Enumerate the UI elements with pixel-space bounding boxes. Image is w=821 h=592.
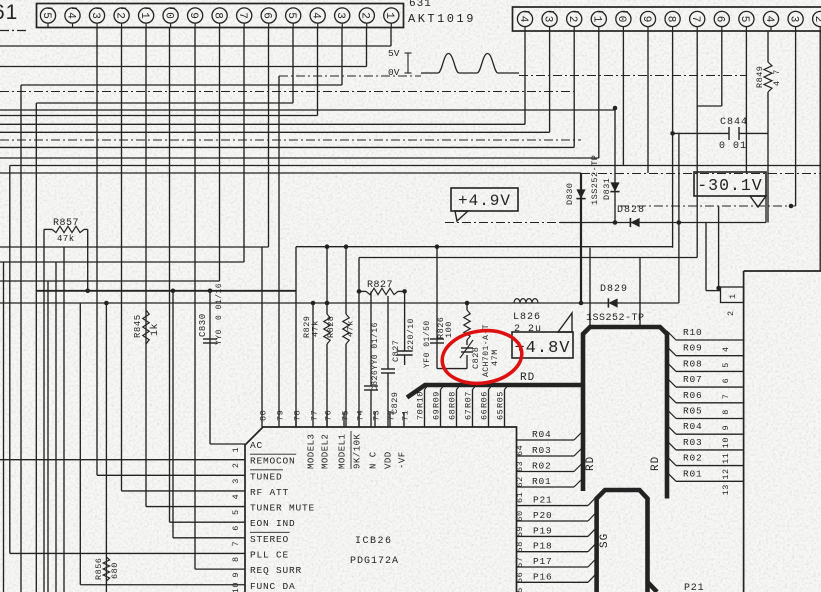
- svg-text:N C: N C: [369, 451, 379, 469]
- svg-text:74: 74: [356, 410, 366, 421]
- svg-text:2 2u: 2 2u: [514, 324, 542, 335]
- svg-text:1: 1: [728, 293, 738, 299]
- svg-text:4: 4: [64, 12, 76, 19]
- svg-text:0: 0: [162, 12, 174, 19]
- svg-text:R01: R01: [683, 468, 703, 479]
- svg-text:5: 5: [40, 12, 52, 19]
- svg-text:8: 8: [231, 556, 241, 562]
- svg-text:220/10: 220/10: [407, 318, 416, 350]
- svg-text:2: 2: [359, 12, 371, 19]
- svg-text:64: 64: [515, 445, 525, 456]
- svg-text:R02: R02: [683, 453, 703, 464]
- svg-text:R08: R08: [448, 391, 458, 408]
- svg-text:1: 1: [231, 447, 241, 453]
- svg-text:2: 2: [231, 463, 241, 469]
- svg-text:5: 5: [738, 16, 750, 23]
- svg-text:VDD: VDD: [384, 451, 394, 469]
- svg-text:77: 77: [310, 410, 320, 421]
- svg-text:0: 0: [615, 16, 627, 23]
- svg-text:AKT1019: AKT1019: [408, 12, 476, 26]
- svg-text:10: 10: [231, 582, 241, 592]
- svg-text:R04: R04: [683, 421, 703, 432]
- svg-text:REQ SURR: REQ SURR: [250, 565, 302, 576]
- svg-text:R07: R07: [683, 374, 703, 385]
- svg-text:5: 5: [285, 12, 297, 19]
- svg-text:RD: RD: [585, 456, 597, 471]
- svg-text:76: 76: [324, 410, 334, 421]
- svg-text:R01: R01: [532, 476, 552, 487]
- svg-text:R857: R857: [53, 218, 79, 229]
- svg-text:9: 9: [231, 572, 241, 578]
- svg-text:6: 6: [714, 16, 726, 23]
- svg-text:R09: R09: [432, 391, 442, 408]
- svg-text:62: 62: [515, 476, 525, 487]
- svg-text:80: 80: [259, 410, 269, 421]
- svg-text:1k: 1k: [149, 323, 161, 336]
- svg-text:P18: P18: [533, 541, 553, 552]
- svg-text:4 7: 4 7: [772, 69, 782, 86]
- svg-text:9: 9: [721, 425, 731, 431]
- svg-text:SG: SG: [599, 533, 611, 548]
- svg-text:8: 8: [664, 16, 676, 23]
- svg-text:-VF: -VF: [398, 451, 408, 469]
- svg-text:56: 56: [515, 572, 525, 583]
- svg-text:13: 13: [721, 484, 731, 495]
- svg-text:R07: R07: [464, 391, 474, 408]
- svg-text:7: 7: [231, 541, 241, 547]
- svg-text:6: 6: [721, 378, 731, 384]
- svg-text:P20: P20: [533, 510, 553, 521]
- svg-text:FUNC DA: FUNC DA: [250, 581, 296, 592]
- svg-text:RD: RD: [650, 456, 662, 471]
- svg-text:100: 100: [444, 321, 454, 338]
- svg-text:D829: D829: [600, 284, 628, 295]
- svg-text:10: 10: [721, 437, 731, 448]
- svg-text:C844: C844: [720, 117, 748, 128]
- svg-text:MODEL2: MODEL2: [321, 434, 331, 469]
- svg-text:8: 8: [211, 12, 223, 19]
- svg-text:12: 12: [721, 468, 731, 479]
- svg-text:9: 9: [187, 12, 199, 19]
- svg-text:R03: R03: [683, 437, 703, 448]
- svg-text:R10: R10: [683, 327, 703, 338]
- svg-text:68: 68: [448, 409, 458, 420]
- svg-text:STEREO: STEREO: [250, 534, 289, 545]
- svg-text:2: 2: [566, 16, 578, 23]
- svg-text:3: 3: [231, 478, 241, 484]
- svg-text:4: 4: [721, 346, 731, 352]
- svg-text:R06: R06: [480, 391, 490, 408]
- svg-text:TUNER MUTE: TUNER MUTE: [250, 503, 315, 514]
- svg-text:5V: 5V: [388, 48, 400, 59]
- svg-text:9: 9: [640, 16, 652, 23]
- svg-text:4: 4: [763, 16, 775, 23]
- svg-text:YF0 01/50: YF0 01/50: [423, 320, 432, 368]
- svg-text:2: 2: [812, 16, 821, 23]
- svg-text:P21: P21: [684, 583, 704, 592]
- svg-text:1: 1: [591, 16, 603, 23]
- svg-text:79: 79: [276, 410, 286, 421]
- svg-text:TUNED: TUNED: [250, 471, 283, 482]
- svg-text:47k: 47k: [311, 320, 321, 337]
- svg-text:3: 3: [334, 12, 346, 19]
- svg-text:8: 8: [721, 409, 731, 415]
- svg-text:0 01/16: 0 01/16: [215, 283, 224, 320]
- svg-text:5: 5: [721, 362, 731, 368]
- svg-text:4: 4: [517, 16, 529, 23]
- svg-text:73: 73: [372, 410, 382, 421]
- svg-text:78: 78: [293, 410, 303, 421]
- svg-text:RD: RD: [520, 372, 535, 384]
- svg-text:C830: C830: [198, 313, 208, 337]
- svg-text:MODEL1: MODEL1: [338, 434, 348, 469]
- svg-text:P21: P21: [533, 495, 553, 506]
- svg-text:65: 65: [496, 409, 506, 420]
- svg-text:3: 3: [541, 16, 553, 23]
- svg-text:R05: R05: [683, 406, 703, 417]
- svg-text:PDG172A: PDG172A: [350, 556, 399, 567]
- svg-text:D828: D828: [617, 205, 645, 216]
- svg-text:0 01: 0 01: [719, 141, 747, 152]
- svg-text:7: 7: [721, 393, 731, 399]
- svg-text:C828: C828: [471, 347, 481, 369]
- svg-text:1SS252-TP: 1SS252-TP: [590, 155, 600, 205]
- svg-text:7: 7: [236, 12, 248, 19]
- svg-text:AC: AC: [250, 440, 263, 451]
- svg-text:47k: 47k: [346, 320, 356, 337]
- svg-text:MODEL3: MODEL3: [307, 434, 317, 469]
- svg-text:2: 2: [113, 12, 125, 19]
- svg-text:69: 69: [432, 409, 442, 420]
- svg-text:ICB26: ICB26: [355, 536, 393, 547]
- svg-text:47M: 47M: [490, 349, 500, 366]
- svg-text:3: 3: [787, 16, 799, 23]
- svg-text:57: 57: [515, 556, 525, 567]
- svg-text:R09: R09: [683, 343, 703, 354]
- svg-text:6: 6: [260, 12, 272, 19]
- svg-text:5: 5: [231, 509, 241, 515]
- svg-text:P19: P19: [533, 525, 553, 536]
- svg-text:R827: R827: [367, 280, 393, 291]
- svg-text:R10: R10: [416, 391, 426, 408]
- svg-text:55: 55: [515, 587, 525, 592]
- svg-text:1: 1: [138, 12, 150, 19]
- svg-text:R02: R02: [532, 461, 552, 472]
- svg-text:+4.9V: +4.9V: [458, 192, 511, 210]
- svg-text:9K/10K: 9K/10K: [353, 433, 363, 469]
- svg-text:YY0: YY0: [215, 329, 224, 345]
- svg-text:631: 631: [409, 0, 432, 10]
- svg-text:R08: R08: [683, 358, 703, 369]
- svg-text:R828: R828: [326, 316, 336, 338]
- svg-text:71: 71: [401, 410, 411, 421]
- svg-text:4: 4: [310, 12, 322, 19]
- svg-text:R03: R03: [532, 445, 552, 456]
- svg-text:67: 67: [464, 409, 474, 420]
- svg-text:D831: D831: [602, 178, 612, 200]
- svg-text:P16: P16: [533, 571, 553, 582]
- svg-text:61: 61: [0, 1, 18, 24]
- svg-text:PLL CE: PLL CE: [250, 549, 289, 560]
- svg-text:60: 60: [515, 510, 525, 521]
- svg-text:61: 61: [515, 492, 525, 503]
- svg-text:680: 680: [110, 562, 120, 579]
- svg-text:REMOCON: REMOCON: [250, 456, 296, 467]
- svg-text:6: 6: [231, 525, 241, 531]
- svg-text:L826: L826: [513, 312, 541, 323]
- svg-text:59: 59: [515, 526, 525, 537]
- svg-text:C826YY0 01/16: C826YY0 01/16: [371, 322, 380, 391]
- svg-text:58: 58: [515, 541, 525, 552]
- svg-text:R06: R06: [683, 390, 703, 401]
- svg-text:66: 66: [480, 409, 490, 420]
- svg-text:R04: R04: [532, 429, 552, 440]
- svg-text:R05: R05: [496, 391, 506, 408]
- svg-text:47k: 47k: [57, 234, 75, 244]
- svg-text:R849: R849: [755, 66, 765, 88]
- svg-text:1: 1: [383, 12, 395, 19]
- svg-text:EON IND: EON IND: [250, 518, 296, 529]
- svg-text:63: 63: [515, 461, 525, 472]
- svg-text:-30.1V: -30.1V: [697, 176, 762, 195]
- svg-text:3: 3: [89, 12, 101, 19]
- svg-text:1SS252-TP: 1SS252-TP: [586, 313, 645, 324]
- svg-text:C827: C827: [391, 340, 401, 362]
- svg-text:RF ATT: RF ATT: [250, 487, 289, 498]
- svg-text:D830: D830: [565, 183, 575, 205]
- svg-text:R845: R845: [133, 314, 143, 338]
- svg-text:2: 2: [726, 310, 736, 316]
- svg-text:7: 7: [689, 16, 701, 23]
- svg-text:R856: R856: [94, 558, 104, 580]
- svg-text:C829: C829: [390, 392, 400, 414]
- svg-text:P17: P17: [533, 556, 553, 567]
- svg-text:11: 11: [721, 453, 731, 464]
- svg-text:70: 70: [416, 409, 426, 420]
- svg-text:4: 4: [231, 494, 241, 500]
